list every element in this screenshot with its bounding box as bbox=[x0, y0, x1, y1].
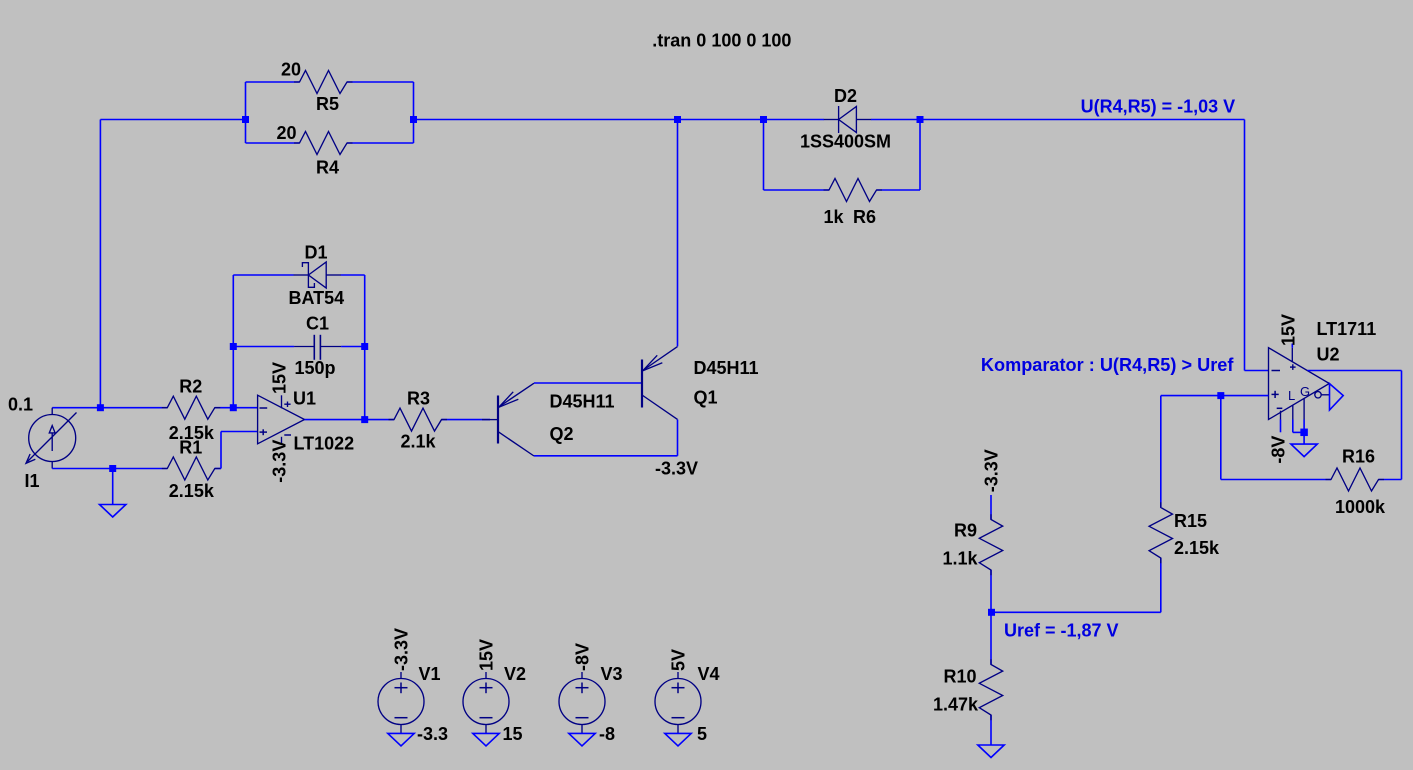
svg-text:D1: D1 bbox=[305, 243, 328, 263]
node junction (U2 GND pin) bbox=[1300, 429, 1308, 437]
svg-text:.tran 0 100 0 100: .tran 0 100 0 100 bbox=[652, 31, 791, 51]
resistor R2 bbox=[100, 407, 167, 409]
node junction (right of R4/R5) bbox=[410, 116, 417, 123]
svg-text:2.1k: 2.1k bbox=[401, 432, 437, 452]
svg-text:V2: V2 bbox=[504, 664, 526, 684]
svg-text:R15: R15 bbox=[1174, 511, 1207, 531]
resistor R6 bbox=[764, 189, 830, 191]
svg-text:-8V: -8V bbox=[1268, 436, 1288, 464]
svg-text:U(R4,R5) = -1,03 V: U(R4,R5) = -1,03 V bbox=[1081, 97, 1236, 117]
node junction (I1 top / R2) bbox=[97, 404, 104, 411]
wire Q2 emitter to Q1 base bbox=[534, 382, 642, 384]
wire top bus to D2 node bbox=[678, 119, 764, 121]
wire into U2 inverting input bbox=[1245, 370, 1269, 372]
svg-text:1.1k: 1.1k bbox=[943, 549, 979, 569]
voltage source V1 bbox=[400, 672, 402, 679]
svg-text:5: 5 bbox=[697, 724, 707, 744]
ground (V3) bbox=[569, 733, 595, 746]
svg-text:Uref = -1,87 V: Uref = -1,87 V bbox=[1004, 621, 1119, 641]
ground (V2) bbox=[473, 733, 499, 746]
capacitor C1 bbox=[233, 346, 294, 348]
wire R16 left vertical bbox=[1220, 396, 1222, 480]
svg-text:15: 15 bbox=[503, 724, 523, 744]
wire U1 inverting input bbox=[233, 407, 257, 409]
svg-text:0.1: 0.1 bbox=[8, 395, 33, 415]
node junction (U1 out / C1 / R3) bbox=[361, 416, 368, 423]
resistor R10 bbox=[990, 612, 992, 664]
wire R1 to U1 +in bbox=[220, 432, 222, 469]
svg-text:V4: V4 bbox=[698, 664, 720, 684]
svg-text:V1: V1 bbox=[419, 664, 441, 684]
svg-text:LT1022: LT1022 bbox=[294, 434, 355, 454]
current source I1 bbox=[51, 408, 53, 415]
svg-text:R2: R2 bbox=[179, 377, 202, 397]
transistor Q1 D45H11 (pnp) bbox=[641, 360, 643, 408]
svg-text:15V: 15V bbox=[477, 639, 497, 671]
resistor R9 bbox=[990, 495, 992, 520]
svg-text:L: L bbox=[1288, 388, 1295, 403]
wire D1 right lead bbox=[341, 274, 365, 276]
wire I1 bottom bbox=[52, 468, 112, 470]
svg-text:U2: U2 bbox=[1317, 345, 1340, 365]
wire R6 right vertical bbox=[919, 120, 921, 191]
node junction (C1 right) bbox=[361, 343, 368, 350]
node junction (R2 / feedback / U1 -in) bbox=[230, 404, 237, 411]
wire feedback right rail bbox=[364, 275, 366, 420]
diode D2 1SS400SM bbox=[824, 119, 839, 121]
resistor R16 bbox=[1221, 479, 1331, 481]
svg-text:-8: -8 bbox=[599, 724, 615, 744]
wire top bus left segment bbox=[100, 119, 245, 121]
svg-text:LT1711: LT1711 bbox=[1317, 319, 1377, 339]
wire right vertical to U2 inverting input bbox=[1244, 120, 1246, 371]
svg-text:-3.3V: -3.3V bbox=[270, 440, 290, 483]
wire right branch stub (R4/R5 right) bbox=[413, 82, 415, 143]
voltage source V3 bbox=[581, 672, 583, 679]
svg-text:R5: R5 bbox=[316, 94, 339, 114]
svg-text:V3: V3 bbox=[601, 664, 623, 684]
svg-text:Komparator : U(R4,R5) > Uref: Komparator : U(R4,R5) > Uref bbox=[981, 355, 1235, 375]
ground (R10) bbox=[978, 745, 1004, 758]
wire U1 output bbox=[305, 419, 365, 421]
svg-text:1k: 1k bbox=[824, 207, 845, 227]
svg-text:Q1: Q1 bbox=[694, 388, 718, 408]
svg-text:D2: D2 bbox=[834, 86, 857, 106]
transistor Q2 D45H11 (pnp) bbox=[482, 419, 498, 421]
node junction (I1 bottom / R1 / ground) bbox=[109, 465, 116, 472]
wire R16 right vertical bbox=[1401, 371, 1403, 480]
wire U2 output bbox=[1308, 370, 1402, 372]
svg-text:R3: R3 bbox=[407, 389, 430, 409]
svg-text:20: 20 bbox=[277, 123, 297, 143]
svg-text:D45H11: D45H11 bbox=[550, 392, 615, 412]
wire Q1 emitter up to bus bbox=[677, 120, 679, 347]
svg-text:R10: R10 bbox=[944, 667, 977, 687]
svg-text:-3.3V: -3.3V bbox=[655, 459, 698, 479]
svg-text:C1: C1 bbox=[306, 314, 329, 334]
svg-text:U1: U1 bbox=[293, 389, 316, 409]
wire Uref horizontal bbox=[992, 611, 1161, 613]
svg-text:-3.3V: -3.3V bbox=[392, 628, 412, 671]
voltage source V2 bbox=[485, 672, 487, 679]
svg-text:5V: 5V bbox=[669, 649, 689, 671]
resistor R15 bbox=[1160, 396, 1162, 508]
svg-text:G: G bbox=[1300, 384, 1310, 399]
svg-text:-8V: -8V bbox=[573, 643, 593, 671]
node junction (D2/R6 right) bbox=[917, 116, 924, 123]
svg-text:R6: R6 bbox=[853, 207, 876, 227]
svg-text:I1: I1 bbox=[25, 471, 40, 491]
svg-text:1000k: 1000k bbox=[1335, 497, 1386, 517]
svg-text:20: 20 bbox=[281, 60, 301, 80]
wire top bus right segment bbox=[920, 119, 1245, 121]
comparator U2 LT1711 bbox=[1269, 348, 1330, 420]
svg-text:-3.3V: -3.3V bbox=[981, 449, 1001, 492]
svg-text:-3.3: -3.3 bbox=[417, 724, 448, 744]
ground (U2) bbox=[1291, 444, 1317, 457]
resistor R3 bbox=[365, 419, 394, 421]
wire top bus middle segment bbox=[414, 119, 678, 121]
node junction (Uref) bbox=[988, 609, 995, 616]
wire U2 +in bbox=[1161, 395, 1269, 397]
svg-text:R16: R16 bbox=[1342, 447, 1375, 467]
op-amp U1 LT1022 bbox=[258, 395, 305, 444]
node junction (D2/R6 left) bbox=[760, 116, 767, 123]
svg-text:BAT54: BAT54 bbox=[289, 288, 345, 308]
svg-text:D45H11: D45H11 bbox=[694, 358, 759, 378]
svg-text:15V: 15V bbox=[270, 362, 290, 394]
ground (V4) bbox=[665, 733, 691, 746]
resistor R1 bbox=[113, 468, 168, 470]
wire D1 left lead bbox=[233, 274, 293, 276]
wire feedback left rail bbox=[232, 275, 234, 408]
svg-text:150p: 150p bbox=[295, 358, 336, 378]
svg-text:R1: R1 bbox=[179, 438, 202, 458]
svg-text:2.15k: 2.15k bbox=[169, 481, 215, 501]
resistor R5 bbox=[246, 81, 300, 83]
svg-text:2.15k: 2.15k bbox=[1174, 538, 1220, 558]
wire D2 right lead bbox=[871, 119, 920, 121]
ground (I1/R1 node) bbox=[100, 505, 126, 518]
node N001 junction (left of R4/R5) bbox=[242, 116, 249, 123]
diode D1 BAT54 bbox=[294, 274, 309, 276]
wire Q1 collector down bbox=[677, 420, 679, 456]
node junction (U2 +in / R16) bbox=[1217, 392, 1224, 399]
node junction (C1 left) bbox=[230, 343, 237, 350]
inverted output marker (blue chevron) bbox=[1330, 384, 1344, 410]
wire collectors join bbox=[534, 455, 678, 457]
resistor R4 bbox=[246, 142, 300, 144]
svg-text:Q2: Q2 bbox=[550, 424, 574, 444]
svg-text:R4: R4 bbox=[316, 158, 339, 178]
node junction (Q1 emitter tap) bbox=[674, 116, 681, 123]
wire left vertical rail bbox=[99, 120, 101, 408]
wire D2 left lead bbox=[764, 119, 825, 121]
svg-text:1SS400SM: 1SS400SM bbox=[800, 132, 891, 152]
wire R6 left vertical bbox=[763, 120, 765, 191]
svg-text:1.47k: 1.47k bbox=[933, 695, 979, 715]
wire left branch stub (R4/R5 left) bbox=[245, 82, 247, 143]
voltage source V4 bbox=[677, 672, 679, 679]
svg-text:R9: R9 bbox=[954, 521, 977, 541]
wire ground stub I1 bbox=[112, 469, 114, 505]
ground (V1) bbox=[388, 733, 414, 746]
wire I1 top bbox=[52, 407, 100, 409]
svg-text:15V: 15V bbox=[1279, 314, 1299, 346]
